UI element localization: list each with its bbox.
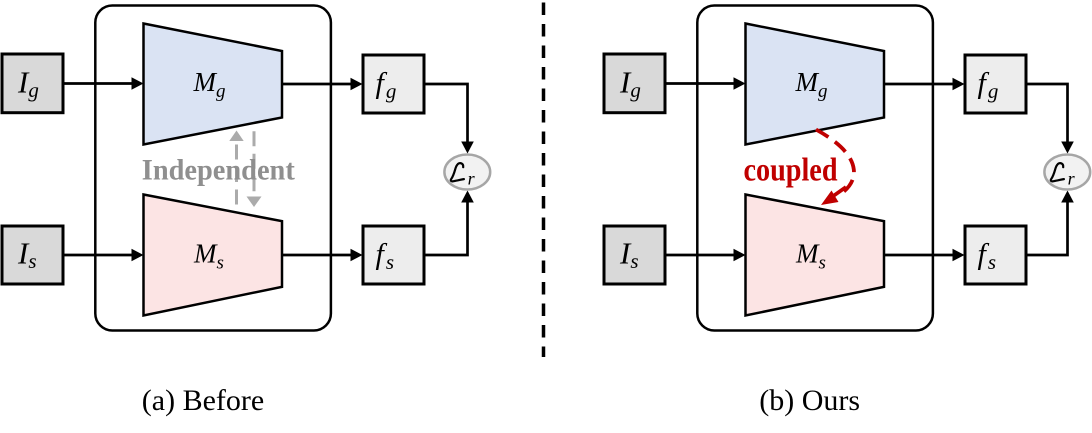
wire Mg to fg (a) xyxy=(282,78,363,91)
caption (b) Ours xyxy=(759,384,860,417)
wire fg to loss (a) xyxy=(424,84,474,154)
wire Ms to fs (b) xyxy=(884,249,965,262)
encoder trapezoid Ms (a) xyxy=(144,195,283,316)
wire Is to Ms (a) xyxy=(64,249,144,262)
wire Is to Ms (b) xyxy=(666,249,746,262)
gray dashed arrow up (a) xyxy=(229,131,243,205)
wire fs to loss (b) xyxy=(1026,191,1074,256)
wire Mg to fg (b) xyxy=(884,78,965,91)
rounded container box (a) xyxy=(95,6,331,331)
loss node Lr (a) xyxy=(444,155,490,190)
svg-text:coupled: coupled xyxy=(744,153,838,189)
feature box fg (b) xyxy=(965,55,1026,113)
wire Ig to Mg (a) xyxy=(64,77,144,90)
svg-text:r: r xyxy=(468,168,476,188)
encoder trapezoid Mg (b) xyxy=(746,24,885,145)
loss node Lr (b) xyxy=(1044,155,1090,190)
input box Ig (b) xyxy=(604,54,665,113)
feature box fs (b) xyxy=(965,226,1026,284)
label Independent (a) xyxy=(142,153,295,186)
svg-text:r: r xyxy=(1068,168,1076,188)
rounded container box (b) xyxy=(697,6,933,331)
red dashed coupling arc (b) xyxy=(816,130,854,206)
label coupled (b) xyxy=(744,153,838,189)
encoder trapezoid Mg (a) xyxy=(144,24,283,145)
svg-text:(a) Before: (a) Before xyxy=(142,384,264,417)
dashed divider line xyxy=(542,3,546,358)
wire Ms to fs (a) xyxy=(282,249,363,262)
svg-text:Independent: Independent xyxy=(142,153,295,186)
feature box fs (a) xyxy=(363,226,424,284)
input box Ig (a) xyxy=(2,54,63,113)
encoder trapezoid Ms (b) xyxy=(746,195,885,316)
caption (a) Before xyxy=(142,384,264,417)
wire Ig to Mg (b) xyxy=(666,77,746,90)
wire fs to loss (a) xyxy=(424,191,474,256)
input box Is (a) xyxy=(2,226,63,284)
svg-text:(b) Ours: (b) Ours xyxy=(759,384,860,417)
feature box fg (a) xyxy=(363,55,424,113)
gray dashed arrow down (a) xyxy=(247,131,262,207)
input box Is (b) xyxy=(604,226,665,284)
wire fg to loss (b) xyxy=(1026,84,1074,154)
